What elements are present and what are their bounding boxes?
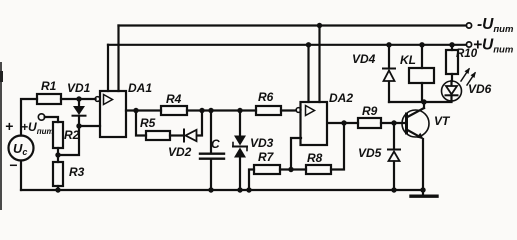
wire: -Upit rail [119,24,467,26]
svg-text:VD3: VD3 [250,136,274,150]
scan edge streak [0,63,2,210]
source Uc [9,136,34,161]
diode VD4 [383,45,395,102]
wire: ground rail [21,189,423,191]
capacitor C [200,111,224,191]
wire: R7 left to ground [249,170,254,191]
wire: DA2 pin from +Upit [307,45,309,102]
wire: R7 to R8 node [280,168,306,170]
svg-text:R5: R5 [140,116,156,130]
op-amp DA2 [296,102,327,145]
wire: R5 branch [136,111,146,136]
diode VD5 [388,123,400,190]
ground [411,190,437,196]
wire: +Upit rail [108,44,466,46]
wire: R2 to R3 [57,148,59,162]
svg-text:DA1: DA1 [128,81,152,95]
wire: +Upit left drop to DA1 pin [107,45,109,91]
wire: to DA1 non-inverting input [79,125,100,127]
node: VD5 junction [391,120,396,125]
node: VD1 bottom junction [76,123,81,128]
wire: DA2 output [328,122,358,124]
svg-text:VD1: VD1 [67,81,91,95]
node: DA2 output junction [341,120,346,125]
zener VD3 (bidirectional) [233,111,247,191]
node: R2/R3 junction [55,152,60,157]
wire: R3 to ground rail [57,186,59,190]
svg-text:KL: KL [400,53,416,67]
svg-text:−: − [9,157,17,173]
op-amp DA1 [95,91,126,137]
node: VD3 ground junction [237,187,242,192]
wire: R9 to VT base [381,122,405,124]
resistor R9 [358,118,381,128]
svg-text:R3: R3 [69,165,85,179]
relay KL [409,45,434,102]
svg-text:+: + [5,118,13,134]
svg-text:R1: R1 [41,79,57,93]
resistor R6 [256,106,281,115]
resistor R2 [53,122,63,148]
svg-text:R6: R6 [258,90,274,104]
wire: DA2 pin from -Upit [318,26,320,103]
node: emitter/ground junction [420,187,425,192]
wire: -Upit left drop to DA1 pin [117,26,119,92]
svg-text:VD2: VD2 [168,145,192,159]
diode VD1 [73,99,86,126]
resistor R5 [146,131,170,140]
wire: R6 to DA2 input [281,109,296,111]
wire: DA1 output bus [126,109,161,111]
node: R1/VD1 junction [76,96,81,101]
wire: terminal to R2 [45,117,58,122]
node: R7/R8 junction [288,167,293,172]
svg-text:R2: R2 [64,128,80,142]
LED VD6 [442,68,476,101]
node: R4/VD2 junction [199,108,204,113]
resistor R8 [306,165,331,174]
svg-text:R4: R4 [166,92,182,106]
wire: R5 to VD2 [170,134,183,136]
node: VD5 ground junction [391,187,396,192]
resistor R4 [161,106,187,115]
svg-text:DA2: DA2 [329,91,353,105]
resistor R7 [254,165,280,174]
wire: R1 to DA1 input [61,98,96,100]
wire: R8 to DA2 output [331,123,344,170]
diode VD2 [184,111,202,142]
node: DA1 output junction [133,108,138,113]
wire: R4 to node [187,109,256,111]
wire: node up to DA2 non-inverting input [291,138,301,170]
wire: source bottom to ground rail [20,161,22,191]
resistor R1 [37,94,61,104]
svg-text:R9: R9 [362,104,378,118]
wire: VD4/KL/LED bottom bus [389,101,452,103]
svg-text:VD5: VD5 [358,146,382,160]
transistor VT [402,102,429,190]
node: VD3 junction [237,108,242,113]
node: +Upit terminal [466,42,471,47]
node: C junction [208,108,213,113]
svg-text:VD4: VD4 [352,52,376,66]
svg-text:VT: VT [434,114,451,128]
svg-text:-Uпит: -Uпит [477,16,514,35]
node: R3 ground junction [55,187,60,192]
resistor R10 [446,45,458,81]
+Upit input terminal [38,114,44,120]
svg-text:+Uпит: +Uпит [473,37,514,56]
node: -Upit terminal [466,23,471,28]
node: R7 ground junction [246,187,251,192]
svg-text:+Uпит: +Uпит [21,120,54,136]
resistor R3 [53,162,63,186]
svg-text:VD6: VD6 [468,82,492,96]
svg-text:Uc: Uc [13,141,27,157]
svg-text:C: C [211,137,220,151]
wire: source top to R1 [21,99,37,136]
node: C ground junction [208,187,213,192]
svg-text:R7: R7 [258,150,275,164]
wire: down to R2/R3 divider [58,126,79,155]
node: collector junction [421,99,426,104]
svg-text:R8: R8 [307,151,323,165]
